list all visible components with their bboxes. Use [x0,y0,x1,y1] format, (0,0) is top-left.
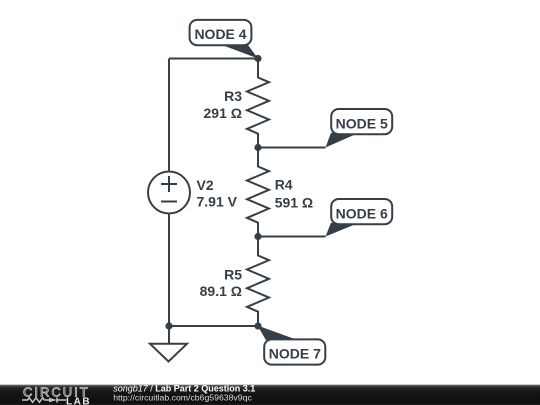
svg-text:R3: R3 [224,88,242,104]
footer logo schematic glyph [22,397,66,402]
wire left rail lower (V2 bottom to bottom rail) [168,215,170,327]
svg-text:NODE 5: NODE 5 [336,115,388,131]
wire left rail upper (node4 corner to V2 top) [168,59,170,171]
node NODE 7 bubble [264,339,325,364]
svg-text:LAB: LAB [66,396,91,405]
wire node6 stub [258,236,326,238]
node junction dot node5 [254,144,261,151]
svg-text:7.91 V: 7.91 V [197,194,238,210]
voltage source V2 circle [148,172,190,214]
node NODE 5 bubble [331,109,392,134]
wire top horizontal from left rail to node 4 [169,58,258,60]
node junction dot ground rail [165,322,172,329]
node C label tail NODE6 [326,223,360,237]
footer logo diode triangle [49,398,57,403]
svg-text:291 Ω: 291 Ω [204,105,242,121]
svg-text:V2: V2 [197,177,214,193]
svg-text:R4: R4 [275,177,293,193]
resistor R3 [247,59,269,148]
wire node5 stub [258,147,326,149]
node junction dot node6 [254,233,261,240]
svg-text:89.1 Ω: 89.1 Ω [200,283,242,299]
node D label tail NODE7 [258,326,299,341]
node NODE 4 bubble [190,20,252,45]
V2 minus sign [161,201,177,203]
svg-text:R5: R5 [224,266,242,282]
svg-text:NODE 7: NODE 7 [269,346,321,362]
svg-text:NODE 4: NODE 4 [194,26,246,42]
svg-text:591 Ω: 591 Ω [275,194,313,210]
footer bar [0,385,540,405]
resistor R5 [247,237,269,327]
node junction dot node4 [254,55,261,62]
wire ground stub [168,326,170,344]
wire bottom horizontal (ground rail to node 7) [169,325,258,327]
svg-text:http://circuitlab.com/cb6g5963: http://circuitlab.com/cb6g59638v9qc [113,392,252,402]
ground symbol [150,344,187,362]
node A label tail NODE4 [222,45,258,59]
svg-text:NODE 6: NODE 6 [336,205,388,221]
node NODE 6 bubble [331,199,392,224]
node junction dot node7 [254,322,261,329]
resistor R4 [247,148,269,237]
node B label tail NODE5 [326,133,360,148]
V2 plus sign [161,176,177,192]
